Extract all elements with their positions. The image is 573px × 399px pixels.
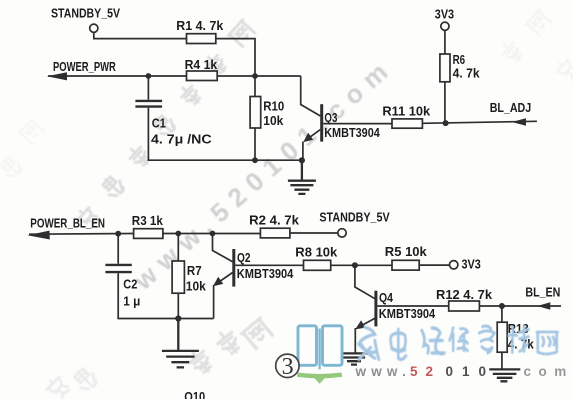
junction R7 tap xyxy=(175,231,181,237)
logo book icon left page xyxy=(298,326,317,366)
node on POWER_PWR at C1 xyxy=(146,73,152,79)
svg-text:BL_ADJ: BL_ADJ xyxy=(490,100,532,115)
wire Q2 collector xyxy=(213,234,233,262)
wire Q3 emitter xyxy=(306,130,321,141)
svg-text:R1 4. 7k: R1 4. 7k xyxy=(176,18,224,33)
wire terminal to R1 xyxy=(94,32,187,38)
svg-text:R8 10k: R8 10k xyxy=(295,245,338,260)
resistor R2 xyxy=(260,228,290,238)
value label C2 xyxy=(123,277,140,309)
wire R3 to R2 xyxy=(163,233,261,235)
wire Q4 base to R12 xyxy=(377,305,448,307)
junction R13 tap xyxy=(499,303,505,309)
svg-text:Q10: Q10 xyxy=(184,389,205,399)
logo text char 2 (dian) xyxy=(391,329,406,359)
svg-text:C2: C2 xyxy=(123,277,137,292)
arrowhead Q4 emitter xyxy=(355,320,365,329)
net label POWER_PWR xyxy=(53,59,116,74)
value label R1 xyxy=(176,18,224,33)
ref label Q4 xyxy=(379,290,436,321)
arrow POWER_PWR xyxy=(47,72,67,80)
logo text char 3 (wei) xyxy=(422,328,444,354)
svg-text:C1: C1 xyxy=(152,115,166,130)
wire C2 to bottom rail xyxy=(118,273,213,318)
resistor R5 xyxy=(392,260,419,270)
wire R12 to BL_EN xyxy=(479,305,561,307)
resistor R1 xyxy=(187,34,216,44)
ground (below Q4) xyxy=(340,353,369,364)
wire node to R10 xyxy=(254,76,256,97)
LOGO xyxy=(276,326,573,384)
svg-text:Q3: Q3 xyxy=(324,110,337,125)
arrowhead BL_EN xyxy=(537,302,550,309)
watermark char row E xyxy=(186,346,215,376)
junction Q2 collector tap xyxy=(210,231,216,237)
capacitor C1 xyxy=(135,101,162,107)
svg-text:KMBT3904: KMBT3904 xyxy=(324,125,380,140)
logo text char 4 (xiu) xyxy=(450,328,468,351)
wire R8 to R5 xyxy=(331,264,392,266)
wire R4 to Q3 collector branch xyxy=(217,75,301,77)
ref label Q10 partial xyxy=(184,389,205,399)
wire 3V3 to R6 xyxy=(444,30,446,54)
value label R12 xyxy=(436,287,493,302)
junction rail/ground xyxy=(175,315,181,321)
svg-text:KMBT3904: KMBT3904 xyxy=(237,266,294,281)
ref label Q2 xyxy=(237,250,294,281)
svg-text:R3 1k: R3 1k xyxy=(132,213,164,228)
svg-text:POWER_BL_EN: POWER_BL_EN xyxy=(30,216,105,231)
svg-text:BL_EN: BL_EN xyxy=(525,285,560,300)
logo url line www xyxy=(355,364,573,379)
wire R10 to bottom rail xyxy=(254,128,256,160)
arrowhead Q2 emitter xyxy=(213,277,223,286)
watermark faint left edge xyxy=(0,154,24,180)
value label R3 xyxy=(132,213,164,228)
circled 3 marker xyxy=(276,354,299,380)
resistor R6 xyxy=(440,54,450,82)
logo book icon right page xyxy=(323,326,343,366)
watermark char row A1 xyxy=(75,205,101,231)
value label C1 xyxy=(151,115,212,146)
svg-text:4. 7μ /NC: 4. 7μ /NC xyxy=(151,132,212,147)
wire R11 to BL_ADJ xyxy=(422,121,537,123)
wire junction down to Q4 collector xyxy=(355,265,375,298)
svg-text:Q2: Q2 xyxy=(237,250,251,265)
svg-text:www.: www. xyxy=(355,364,412,379)
wire node to C2 xyxy=(117,234,119,264)
watermark www.520101.com diagonal xyxy=(127,57,393,296)
wire Q4 emitter xyxy=(358,318,375,327)
node C2 tap xyxy=(115,231,121,237)
resistor R12 xyxy=(449,301,480,311)
resistor R11 xyxy=(392,119,422,128)
svg-text:Q4: Q4 xyxy=(379,290,394,305)
svg-text:STANDBY_5V: STANDBY_5V xyxy=(51,6,120,21)
arrow POWER_BL_EN xyxy=(27,231,49,240)
wire POWER_PWR line xyxy=(48,75,187,77)
watermark faint right edge xyxy=(553,57,573,83)
terminal 3V3 (bottom) xyxy=(450,261,458,269)
watermark faint bottom left xyxy=(44,374,72,399)
value label R11 xyxy=(382,104,431,119)
svg-text:R4 1k: R4 1k xyxy=(185,57,218,72)
value label R4 xyxy=(185,57,218,72)
svg-text:10k: 10k xyxy=(186,279,207,294)
resistor R7 xyxy=(172,261,184,293)
net label BL_ADJ xyxy=(490,100,532,115)
svg-text:R10: R10 xyxy=(263,99,284,114)
value label R10 xyxy=(263,99,284,128)
wire Q2 base to R8 xyxy=(235,264,303,266)
wire C1 bottom to rail xyxy=(148,108,302,160)
wire Q2 emitter xyxy=(216,273,233,285)
svg-text:www.520101.com: www.520101.com xyxy=(127,57,393,296)
wire Q3 base to R11 xyxy=(323,123,392,125)
resistor R13 xyxy=(497,322,507,352)
resistor R3 xyxy=(134,229,163,239)
value label R2 xyxy=(249,212,300,227)
junction rail/emitter ground xyxy=(299,157,305,163)
value label R7 xyxy=(186,263,207,294)
svg-text:1 μ: 1 μ xyxy=(123,293,140,308)
svg-text:R7: R7 xyxy=(187,263,202,278)
svg-text:10k: 10k xyxy=(263,113,284,128)
logo text char 7 (wang) xyxy=(537,332,558,354)
wire R5 to 3V3 terminal xyxy=(419,264,449,266)
wire Q3 collector xyxy=(301,76,321,116)
ref label Q3 xyxy=(324,110,380,140)
resistor R8 xyxy=(304,260,331,270)
junction R8/R5/Q4 xyxy=(352,262,358,268)
capacitor C2 xyxy=(105,265,131,272)
resistor R4 xyxy=(187,71,218,81)
junction rail/R10 xyxy=(252,157,258,163)
svg-text:3V3: 3V3 xyxy=(462,257,481,272)
transistor Q2 base bar xyxy=(232,249,235,287)
net label BL_EN xyxy=(525,285,560,300)
net label 3V3 bottom xyxy=(462,257,481,272)
svg-text:4. 7k: 4. 7k xyxy=(453,66,481,81)
svg-text:3V3: 3V3 xyxy=(435,7,454,22)
svg-text:POWER_PWR: POWER_PWR xyxy=(53,59,116,74)
wire Q3 emitter to rail xyxy=(302,142,304,161)
net label 3V3 top xyxy=(435,7,454,22)
value label R5 xyxy=(385,244,428,259)
svg-text:R6: R6 xyxy=(453,52,466,67)
svg-text:R2 4. 7k: R2 4. 7k xyxy=(249,212,300,227)
watermark faint top right xyxy=(498,39,525,65)
wire R1 to corner down to node xyxy=(216,39,255,76)
svg-text:com: com xyxy=(524,364,573,379)
svg-text:KMBT3904: KMBT3904 xyxy=(379,306,436,321)
svg-text:R5 10k: R5 10k xyxy=(385,244,428,259)
svg-text:3: 3 xyxy=(282,354,294,380)
svg-text:52: 52 xyxy=(410,364,441,379)
wire Q2 emitter to rail xyxy=(213,285,215,319)
wire node to C1 top xyxy=(147,76,149,100)
value label R13 xyxy=(508,321,535,352)
transistor Q3 base bar xyxy=(320,104,323,141)
arrowhead Q3 emitter xyxy=(303,133,313,142)
logo text char 5 (zi) xyxy=(479,326,494,353)
value label R6 xyxy=(453,52,481,81)
arrowhead BL_ADJ xyxy=(512,118,526,126)
logo book icon green base swoosh xyxy=(297,375,342,384)
net label STANDBY_5V bottom xyxy=(319,210,390,225)
ground (below R13) xyxy=(489,369,520,381)
ground (bottom left) xyxy=(162,319,199,368)
wire Q4 emitter to ground xyxy=(354,328,356,353)
wire R13 to ground xyxy=(501,352,503,368)
wire R2 to STANDBY_5V terminal xyxy=(290,232,338,234)
svg-text:R11 10k: R11 10k xyxy=(382,104,431,119)
wire R6 to junction xyxy=(444,82,446,123)
logo book icon spine xyxy=(318,329,320,370)
wire POWER_BL_EN line xyxy=(29,233,134,236)
terminal STANDBY_5V (top) xyxy=(90,24,98,32)
logo text char 1 (jia) xyxy=(359,327,379,359)
junction R6/R11 xyxy=(443,120,449,126)
wire junction to R13 xyxy=(501,306,503,322)
ground (top, below Q3) xyxy=(288,160,316,194)
net label POWER_BL_EN xyxy=(30,216,105,231)
logo text char 6 (liao) xyxy=(509,326,529,352)
wire R7 tap down xyxy=(177,234,179,262)
terminal 3V3 (top) xyxy=(441,22,449,30)
resistor R10 xyxy=(250,97,261,129)
svg-text:R12 4. 7k: R12 4. 7k xyxy=(436,287,493,302)
svg-text:010: 010 xyxy=(446,364,496,379)
wire R7 to rail xyxy=(177,293,179,318)
value label R8 xyxy=(295,245,338,260)
transistor Q4 base bar xyxy=(374,291,377,327)
node junction R1/R4 xyxy=(252,73,258,79)
terminal STANDBY_5V (bottom) xyxy=(338,229,346,237)
svg-text:STANDBY_5V: STANDBY_5V xyxy=(319,210,390,225)
net label STANDBY_5V top xyxy=(51,6,120,21)
